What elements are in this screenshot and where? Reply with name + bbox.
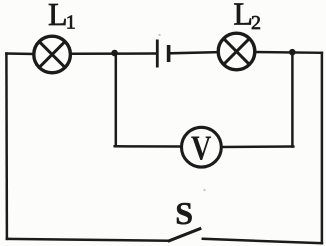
scan speck above battery — [158, 34, 160, 36]
wire bottom-right horizontal — [203, 239, 322, 243]
wire L1 to battery — [71, 52, 157, 55]
svg-text:L: L — [233, 0, 253, 31]
wire voltmeter branch right horizontal — [223, 145, 294, 148]
wire right vertical — [321, 53, 324, 243]
switch S blade — [168, 228, 202, 241]
svg-text:2: 2 — [251, 12, 261, 34]
battery cell — [157, 40, 168, 68]
lamp L1 — [34, 36, 71, 73]
wire left vertical — [5, 54, 8, 239]
label L2 — [233, 0, 261, 34]
node B junction dot right — [289, 49, 296, 56]
lamp L2 — [218, 33, 255, 70]
svg-text:V: V — [191, 129, 212, 167]
scan speck above switch — [203, 189, 206, 192]
svg-text:1: 1 — [66, 11, 76, 33]
svg-text:L: L — [48, 0, 68, 32]
wire battery to L2 — [170, 52, 218, 53]
wire voltmeter branch left horizontal — [115, 145, 181, 148]
voltmeter V — [182, 127, 222, 167]
svg-text:S: S — [175, 195, 193, 231]
wire voltmeter branch left vertical — [115, 53, 118, 146]
wire top-right horizontal — [256, 51, 322, 54]
wire bottom-left horizontal — [7, 239, 169, 241]
wire voltmeter branch right vertical — [291, 52, 294, 146]
node A junction dot left — [111, 50, 118, 57]
wire top-left horizontal — [6, 52, 33, 55]
label L1 — [48, 0, 76, 33]
